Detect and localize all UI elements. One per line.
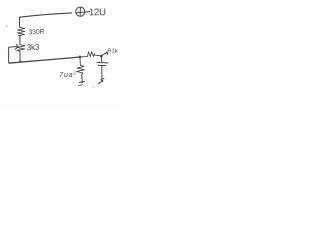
stray pencil speck: [93, 86, 94, 87]
resistor R1 330R: [17, 28, 25, 36]
wiper arrow of R2: [9, 46, 17, 49]
wire top rail: [20, 13, 72, 17]
svg-text:12U: 12U: [89, 7, 106, 18]
svg-text:7ua: 7ua: [59, 72, 73, 79]
battery B1 12V: [76, 7, 85, 16]
stray pencil speck left: [6, 25, 8, 27]
node B junction dot: [100, 55, 103, 58]
resistor R3 horizontal: [81, 52, 99, 57]
svg-text:3k3: 3k3: [27, 42, 41, 52]
ground tick 2 under R4: [79, 84, 83, 87]
resistor R4 vertical: [77, 58, 85, 74]
wire C1 to ground: [101, 66, 103, 79]
wire bottom rail: [9, 57, 79, 63]
ground tick under R4: [80, 82, 85, 83]
svg-text:R1k: R1k: [107, 49, 117, 55]
ground squiggle under C1: [99, 79, 104, 84]
wire R1 to R2: [19, 36, 21, 45]
resistor R2 3k3 potentiometer: [17, 45, 25, 52]
junction R2-rail: [19, 60, 21, 62]
capacitor C1 bottom plate: [98, 64, 106, 66]
wire R4 to ground: [81, 75, 83, 83]
wire node B down: [100, 57, 102, 63]
wire left vertical: [18, 17, 20, 27]
node A junction dot: [79, 56, 82, 59]
output stub with arrow: [102, 52, 107, 55]
svg-text:330R: 330R: [28, 29, 44, 37]
wire R2 bottom to rail: [19, 51, 21, 61]
capacitor C1 top plate: [97, 62, 108, 64]
wire wiper down to rail: [9, 47, 10, 63]
